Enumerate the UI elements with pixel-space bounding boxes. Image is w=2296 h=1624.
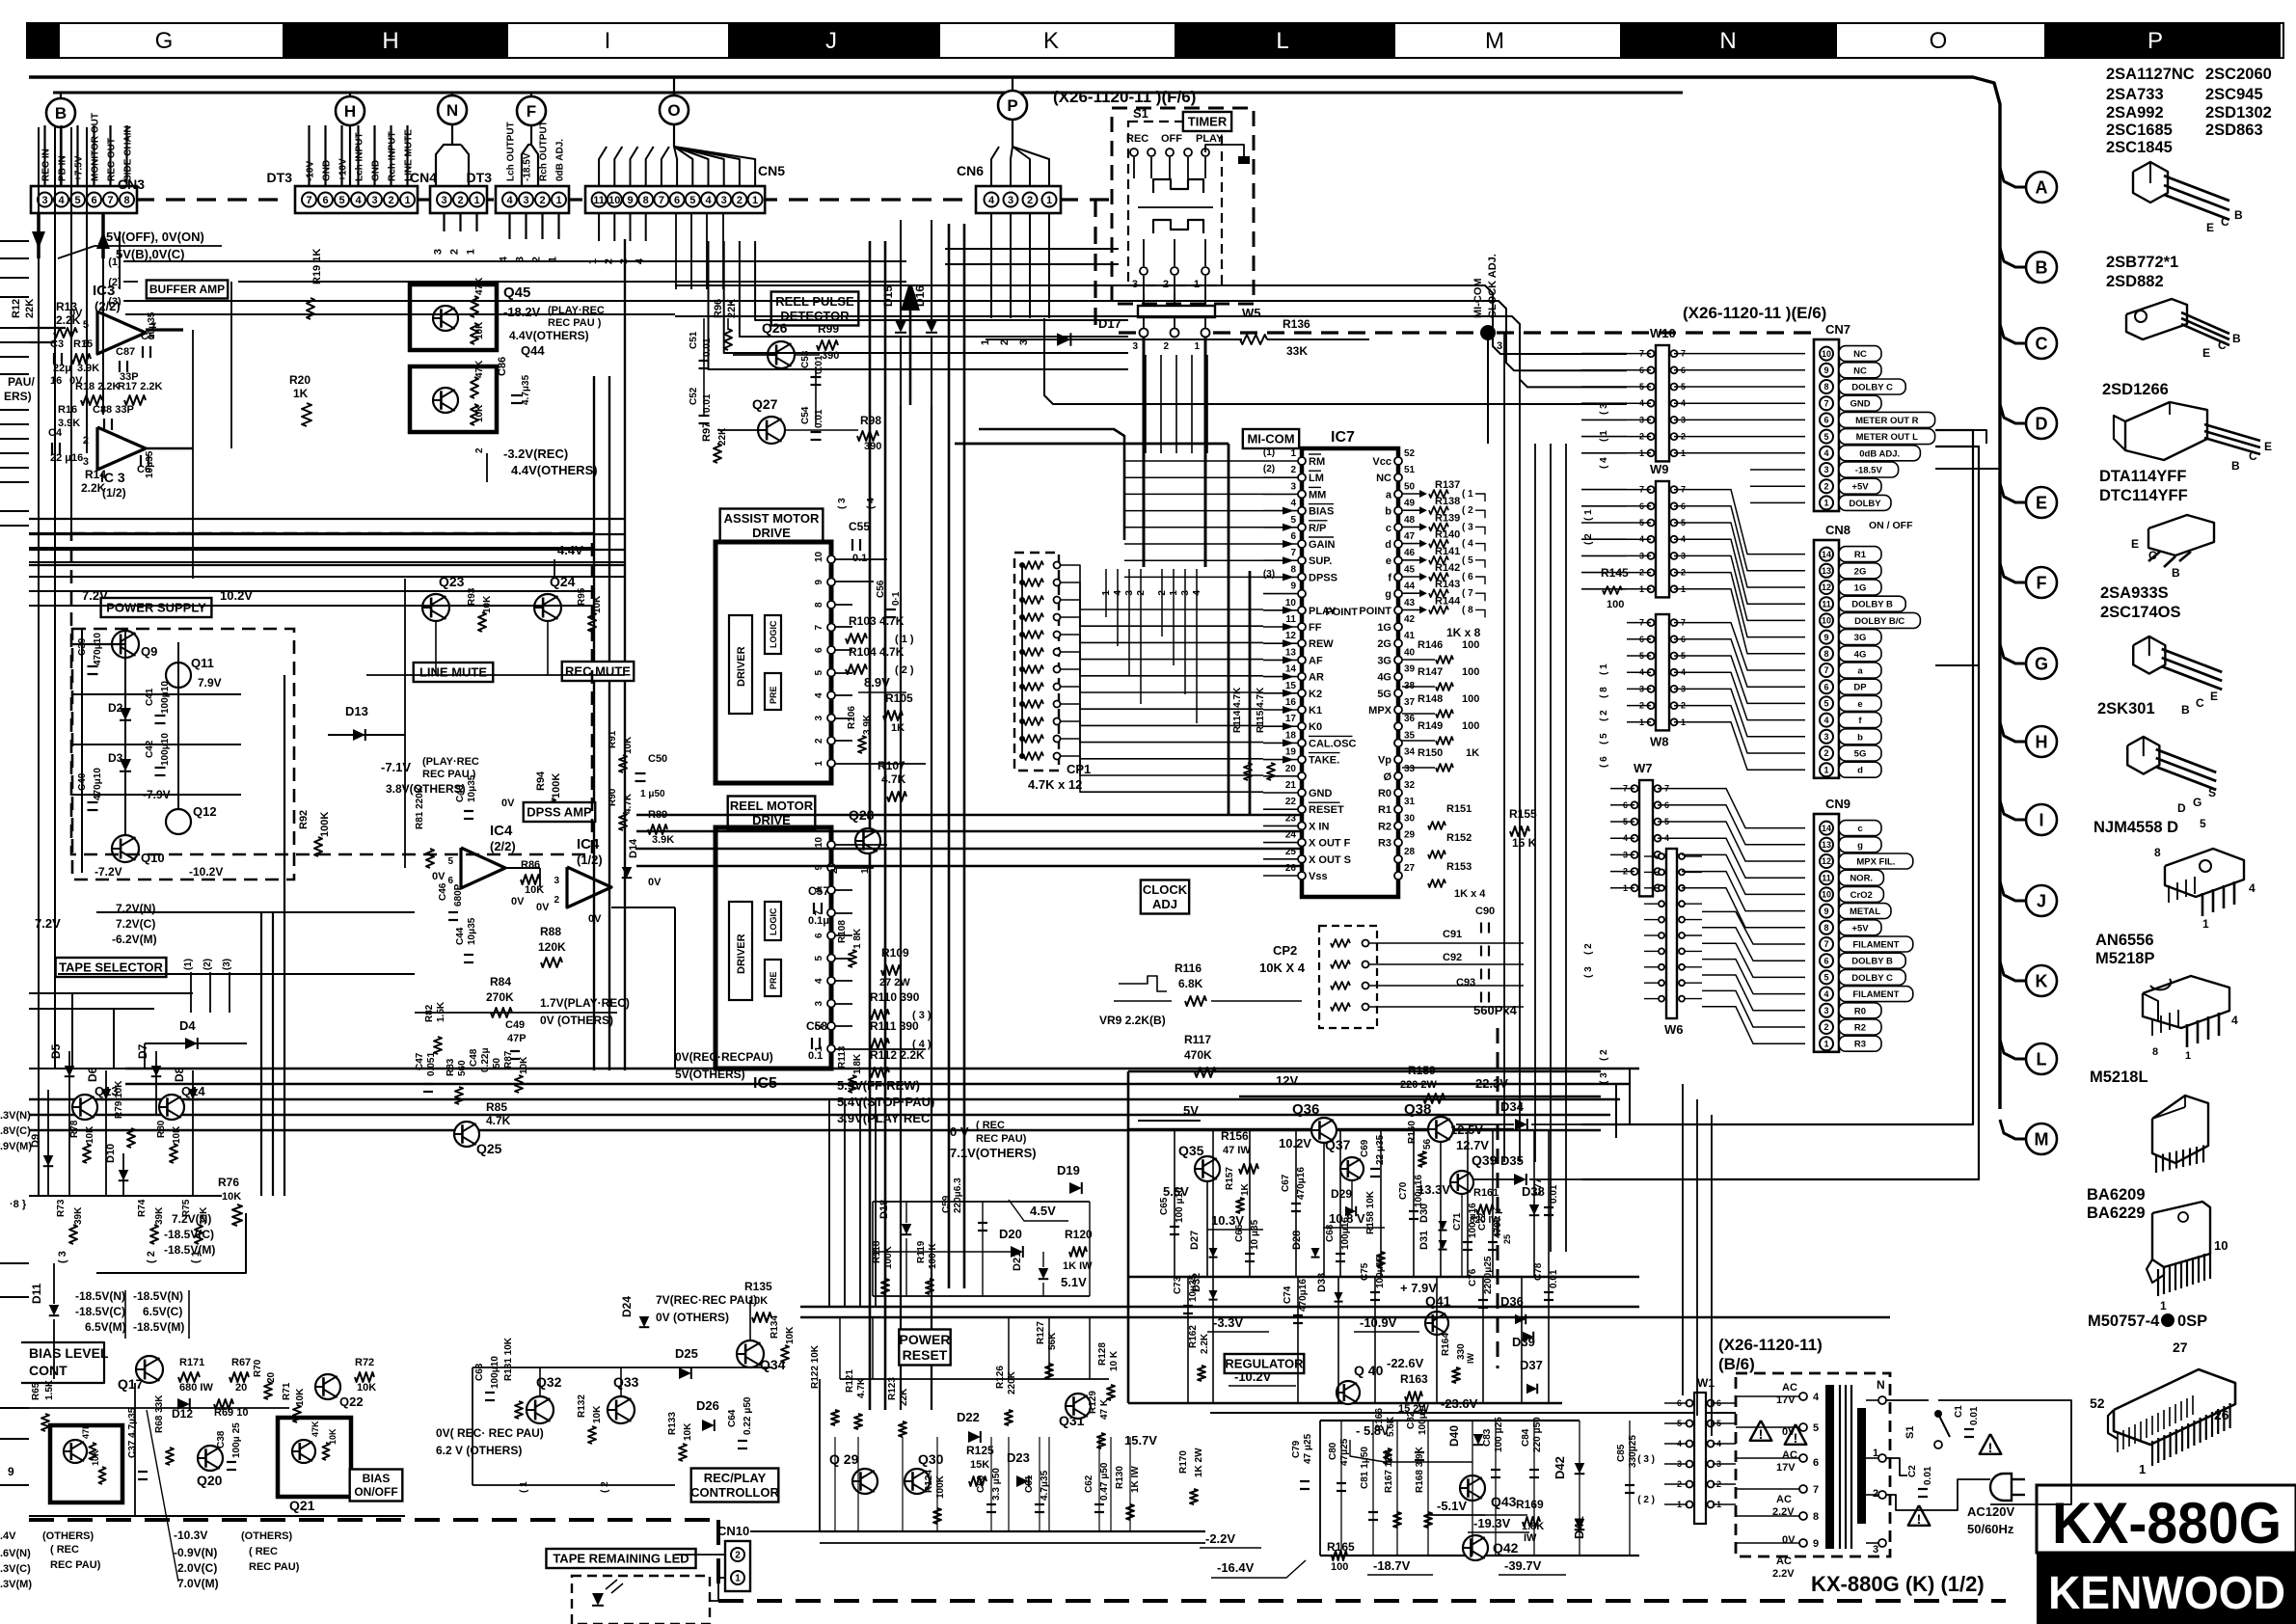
- node tap circle E: [2000, 483, 2026, 502]
- IC7 pin 8 DPSS: [1298, 573, 1306, 581]
- svg-text:IC7: IC7: [1331, 429, 1355, 446]
- svg-text:2SC945: 2SC945: [2205, 86, 2263, 103]
- IC7 pin 28 nc: [1394, 855, 1402, 863]
- wire cn8 to right border: [1935, 665, 1979, 675]
- svg-text:10K: 10K: [785, 1326, 796, 1344]
- wire left edge stubs lower: [0, 1262, 29, 1264]
- wire regulator verticals: [1174, 1129, 1175, 1277]
- svg-text:B: B: [2231, 459, 2240, 473]
- svg-text:49: 49: [1404, 499, 1416, 509]
- wire W1 pins: [1664, 1422, 1688, 1424]
- svg-text:6: 6: [91, 195, 96, 206]
- svg-text:5G: 5G: [1854, 749, 1867, 760]
- svg-text:14: 14: [1822, 550, 1831, 559]
- svg-text:3.8V(OTHERS): 3.8V(OTHERS): [386, 782, 466, 796]
- svg-text:1.5K: 1.5K: [44, 1379, 55, 1400]
- IC7 pin 50 a: [1394, 490, 1402, 498]
- svg-text:Q 40: Q 40: [1354, 1363, 1384, 1378]
- svg-text:15.7V: 15.7V: [1124, 1433, 1157, 1448]
- svg-text:AC: AC: [1776, 1556, 1792, 1567]
- svg-text:1: 1: [555, 195, 561, 206]
- svg-text:C59: C59: [941, 1195, 952, 1213]
- svg-text:RESET: RESET: [903, 1347, 948, 1363]
- wire W5 pin: [1204, 294, 1206, 306]
- resistor CP1-7: [1024, 665, 1043, 673]
- svg-text:2SA933S: 2SA933S: [2100, 584, 2169, 602]
- svg-text:R153: R153: [1446, 861, 1472, 873]
- logo box KX-880G: [2037, 1485, 2296, 1553]
- svg-text:11: 11: [1822, 599, 1831, 609]
- svg-text:R124: R124: [924, 1470, 934, 1493]
- svg-text:DP: DP: [1853, 683, 1867, 693]
- wire block C verticals: [1340, 1421, 1342, 1556]
- IC7 pin 29 R3: [1394, 839, 1402, 847]
- svg-text:O: O: [1930, 28, 1948, 54]
- svg-text:5.6K: 5.6K: [1386, 1416, 1396, 1437]
- resistor CP2-1: [1331, 939, 1350, 947]
- svg-text:-18.5V: -18.5V: [1855, 466, 1883, 476]
- svg-text:9: 9: [1290, 582, 1296, 592]
- svg-text:D31: D31: [1418, 1231, 1430, 1250]
- svg-text:( 2: ( 2: [1599, 710, 1609, 721]
- wire CN3 pin: [76, 125, 78, 186]
- connector CN5: [585, 186, 765, 213]
- svg-text:R126: R126: [995, 1366, 1006, 1389]
- svg-text:R137: R137: [1435, 479, 1460, 491]
- wire transformer to plug: [1886, 1458, 1907, 1475]
- svg-text:20: 20: [1285, 764, 1297, 774]
- svg-text:d: d: [1385, 539, 1391, 551]
- svg-text:7.2V(N): 7.2V(N): [172, 1212, 211, 1226]
- svg-text:2.2V: 2.2V: [1772, 1568, 1795, 1580]
- svg-text:52: 52: [1404, 448, 1416, 459]
- svg-text:2: 2: [554, 895, 559, 906]
- IC6 block: [716, 542, 831, 783]
- svg-text:REC PAU): REC PAU): [50, 1559, 101, 1571]
- svg-text:C: C: [2249, 449, 2257, 463]
- svg-text:1: 1: [473, 195, 479, 206]
- wire bundle center risers: [1145, 355, 1147, 453]
- svg-text:680 IW: 680 IW: [179, 1382, 213, 1394]
- svg-text:K2: K2: [1309, 689, 1322, 700]
- svg-text:7: 7: [1823, 398, 1828, 408]
- svg-text:( 8: ( 8: [1462, 605, 1473, 615]
- wire top bus B: [53, 92, 1683, 95]
- package drawing TO-126: [2126, 299, 2187, 339]
- svg-text:7: 7: [1813, 1484, 1819, 1496]
- svg-text:D15: D15: [881, 285, 895, 307]
- svg-text:1.5K: 1.5K: [436, 1001, 446, 1022]
- svg-text:REC OUT: REC OUT: [107, 138, 118, 181]
- IC6 DRIVER box: [729, 615, 752, 714]
- svg-text:50: 50: [1404, 481, 1416, 492]
- svg-text:R109: R109: [881, 946, 909, 960]
- svg-text:f: f: [1388, 572, 1391, 583]
- svg-text:R135: R135: [744, 1280, 772, 1293]
- svg-text:C68: C68: [1325, 1224, 1336, 1242]
- svg-text:2SD863: 2SD863: [2205, 122, 2263, 139]
- svg-text:1K: 1K: [891, 722, 905, 734]
- svg-text:Q26: Q26: [762, 320, 788, 336]
- svg-text:R136: R136: [1283, 317, 1310, 331]
- svg-text:CAL.OSC: CAL.OSC: [1309, 738, 1357, 749]
- wire bundle W9 left: [1581, 489, 1627, 491]
- svg-text:R144: R144: [1435, 595, 1461, 607]
- wire stub: [443, 213, 445, 231]
- svg-text:9: 9: [814, 580, 824, 585]
- svg-text:R128: R128: [1097, 1342, 1108, 1366]
- svg-text:R170: R170: [1178, 1450, 1189, 1474]
- wire W6 pin: [1644, 966, 1659, 968]
- svg-text:13: 13: [1285, 647, 1297, 658]
- label box REEL PULSE DETECTOR: [771, 292, 859, 326]
- svg-text:.3V(M): .3V(M): [0, 1579, 32, 1590]
- svg-text:R147: R147: [1418, 666, 1443, 678]
- svg-text:100μ16: 100μ16: [1340, 1217, 1351, 1250]
- svg-text:R65: R65: [31, 1382, 41, 1400]
- IC7 pin 42 1G: [1394, 623, 1402, 631]
- svg-text:0V( REC· REC PAU): 0V( REC· REC PAU): [436, 1426, 544, 1440]
- switch contacts bottom row: [1143, 239, 1145, 266]
- svg-text:LINE MUTE: LINE MUTE: [419, 665, 487, 680]
- svg-text:C62: C62: [1084, 1475, 1094, 1493]
- svg-text:S1: S1: [1904, 1426, 1916, 1439]
- svg-text:4.7μ35: 4.7μ35: [521, 374, 531, 405]
- svg-text:220 2W: 220 2W: [1400, 1079, 1438, 1091]
- svg-text:( 3: ( 3: [837, 498, 848, 509]
- svg-text:Q10: Q10: [141, 851, 165, 865]
- svg-text:LOGIC: LOGIC: [769, 907, 778, 935]
- svg-text:b: b: [1385, 506, 1391, 518]
- svg-text:+5V: +5V: [1851, 482, 1869, 493]
- svg-text:RM: RM: [1309, 456, 1325, 468]
- svg-text:1: 1: [1046, 195, 1052, 206]
- svg-text:37: 37: [1404, 697, 1416, 708]
- pin label 5G: [1839, 745, 1881, 761]
- svg-text:270K: 270K: [486, 990, 514, 1004]
- pin label DOLBY B: [1839, 953, 1905, 968]
- svg-text:51: 51: [1404, 465, 1416, 475]
- wire dashed CN9 to transformer: [1497, 1028, 1499, 1368]
- svg-text:NOR.: NOR.: [1850, 874, 1873, 884]
- svg-text:R72: R72: [355, 1357, 374, 1368]
- svg-text:7.1V(OTHERS): 7.1V(OTHERS): [950, 1146, 1037, 1160]
- svg-text:C48: C48: [469, 1048, 479, 1067]
- svg-text:CN9: CN9: [1825, 797, 1850, 811]
- callout line: [147, 1410, 178, 1582]
- node tap circle G: [2000, 644, 2026, 663]
- node stub circle P: [1012, 77, 1013, 91]
- wire CN4 pin: [390, 125, 392, 186]
- wire stub: [475, 213, 477, 231]
- svg-text:C67: C67: [1281, 1174, 1291, 1192]
- svg-text:(PLAY·REC: (PLAY·REC: [422, 756, 479, 768]
- svg-text:R171: R171: [179, 1357, 204, 1368]
- svg-text:R129: R129: [1088, 1391, 1098, 1414]
- svg-text:C: C: [2148, 549, 2157, 562]
- svg-text:FF: FF: [1309, 622, 1322, 634]
- svg-text:REW: REW: [1309, 638, 1334, 650]
- wire W pin: [1627, 622, 1651, 624]
- svg-text:0V: 0V: [588, 913, 602, 925]
- svg-text:C85: C85: [1616, 1444, 1627, 1462]
- svg-text:10K: 10K: [525, 884, 544, 896]
- dashed LED box: [572, 1576, 710, 1624]
- transformer pins left column: [1799, 1393, 1807, 1400]
- wire W pin: [1627, 688, 1651, 690]
- svg-text:1: 1: [2139, 1462, 2146, 1476]
- svg-text:5: 5: [814, 956, 824, 961]
- svg-text:22K: 22K: [899, 1388, 909, 1406]
- svg-text:(1): (1): [183, 959, 194, 970]
- svg-text:( REC: ( REC: [249, 1546, 278, 1557]
- svg-text:MONITOR OUT: MONITOR OUT: [91, 113, 101, 181]
- svg-text:R130: R130: [1115, 1466, 1125, 1489]
- transformer windings right: [1878, 1396, 1886, 1404]
- svg-text:IC5: IC5: [753, 1075, 777, 1092]
- svg-text:E: E: [2036, 493, 2047, 512]
- svg-text:2: 2: [539, 195, 545, 206]
- svg-text:6: 6: [1813, 1457, 1819, 1469]
- pin label c: [1839, 821, 1881, 836]
- svg-text:9: 9: [8, 1465, 14, 1478]
- package drawing SIP10: [2152, 1202, 2210, 1267]
- svg-text:-3.2V(REC): -3.2V(REC): [503, 447, 568, 461]
- svg-text:3: 3: [814, 1001, 824, 1007]
- wire left long verticals: [38, 598, 40, 1196]
- svg-text:3: 3: [1823, 732, 1828, 742]
- pin label g: [1839, 837, 1881, 853]
- svg-text:METER OUT R: METER OUT R: [1855, 416, 1919, 426]
- svg-text:C70: C70: [1398, 1181, 1409, 1200]
- wire circle P fan: [991, 147, 999, 186]
- wire block C mid rails: [1385, 1461, 1472, 1463]
- svg-text:R117: R117: [1184, 1033, 1211, 1046]
- transistor Q17: [136, 1356, 163, 1383]
- svg-text:-18.5V: -18.5V: [523, 152, 533, 181]
- svg-text:!: !: [1794, 1430, 1798, 1446]
- wire CN5 pin top: [674, 147, 740, 186]
- svg-text:C47: C47: [415, 1052, 425, 1070]
- svg-text:10K: 10K: [474, 321, 485, 339]
- switch contacts top row: [1130, 149, 1138, 156]
- svg-text:Q11: Q11: [191, 656, 214, 670]
- svg-text:10: 10: [814, 836, 824, 848]
- label box REC MUTE: [562, 662, 634, 681]
- svg-text:13: 13: [1822, 840, 1831, 850]
- wire cn6 sweep to W10 pin4: [1044, 318, 1627, 404]
- svg-text:C1: C1: [1954, 1405, 1964, 1418]
- svg-text:0.01: 0.01: [1549, 1269, 1559, 1288]
- pin label 4G: [1839, 646, 1881, 662]
- svg-text:R76: R76: [218, 1176, 239, 1189]
- svg-text:-16.4V: -16.4V: [1217, 1560, 1255, 1575]
- svg-text:2G: 2G: [1377, 638, 1391, 650]
- IC6 PRE box: [765, 673, 781, 710]
- resistor R138: [1402, 509, 1425, 511]
- svg-text:!: !: [1759, 1426, 1764, 1442]
- wire CN5 pin top: [599, 147, 607, 186]
- thick box Q21: [278, 1418, 351, 1497]
- svg-text:680P: 680P: [453, 883, 464, 907]
- svg-text:( 2: ( 2: [146, 1251, 157, 1263]
- pin label R1: [1839, 547, 1881, 562]
- svg-text:4: 4: [814, 978, 824, 984]
- svg-text:45: 45: [1404, 564, 1416, 575]
- pin label e: [1839, 695, 1881, 711]
- svg-text:D22: D22: [957, 1410, 980, 1424]
- wire W1 pins: [1664, 1463, 1688, 1465]
- svg-text:( 2 ): ( 2 ): [1637, 1495, 1655, 1505]
- svg-text:R162: R162: [1188, 1325, 1199, 1348]
- svg-text:I: I: [605, 28, 611, 54]
- svg-text:TAPE REMAINING LED: TAPE REMAINING LED: [553, 1552, 689, 1566]
- svg-text:C76: C76: [1468, 1268, 1478, 1286]
- svg-text:17: 17: [1285, 714, 1297, 724]
- wire left edge stubs upper: [0, 327, 29, 329]
- resistor CP1-6: [1024, 648, 1043, 656]
- svg-text:R67: R67: [231, 1357, 251, 1368]
- svg-text:( 3: ( 3: [57, 1251, 68, 1263]
- op-amp IC3 1/2: [97, 427, 146, 470]
- svg-text:J: J: [2037, 891, 2046, 910]
- svg-text:A: A: [2036, 177, 2048, 197]
- resistor R136: [1240, 335, 1267, 344]
- svg-text:R80: R80: [156, 1120, 167, 1138]
- jumper W6: [1666, 849, 1677, 1018]
- svg-text:DRIVER: DRIVER: [736, 646, 747, 687]
- wire heavy elbow from left: [979, 429, 1124, 540]
- svg-text:AN6556: AN6556: [2095, 932, 2154, 949]
- svg-text:DTC114YFF: DTC114YFF: [2099, 487, 2188, 504]
- svg-text:( 2: ( 2: [1583, 943, 1594, 955]
- svg-text:KENWOOD: KENWOOD: [2048, 1568, 2285, 1619]
- svg-text:3: 3: [371, 195, 377, 206]
- svg-text:( 4: ( 4: [1599, 457, 1609, 469]
- svg-text:8: 8: [123, 195, 129, 206]
- svg-text:IW: IW: [1466, 1352, 1475, 1364]
- wire W pin: [1610, 788, 1634, 790]
- svg-text:1: 1: [735, 1574, 741, 1584]
- node stub circle F: [530, 93, 532, 96]
- svg-text:10K: 10K: [482, 595, 493, 613]
- wire dashed boundary vertical jog: [1094, 200, 1096, 333]
- svg-text:(X26-1120-11): (X26-1120-11): [1718, 1336, 1823, 1354]
- wire W pin: [1627, 638, 1651, 640]
- svg-text:ERS): ERS): [4, 390, 32, 403]
- resistor CP1-12: [1024, 752, 1043, 760]
- svg-text:5: 5: [447, 856, 453, 867]
- svg-text:( 5: ( 5: [1462, 555, 1473, 566]
- svg-text:AR: AR: [1309, 672, 1324, 684]
- wire CN6 below: [1029, 213, 1031, 318]
- svg-text:BA6229: BA6229: [2087, 1204, 2146, 1222]
- svg-text:R1: R1: [1854, 550, 1867, 560]
- svg-text:VR9 2.2K(B): VR9 2.2K(B): [1099, 1014, 1166, 1027]
- svg-text:GND: GND: [1850, 399, 1870, 410]
- svg-text:6: 6: [814, 933, 824, 938]
- svg-text:10K: 10K: [748, 1295, 768, 1307]
- transistor Q11: [166, 663, 191, 688]
- svg-text:C80: C80: [1328, 1442, 1338, 1460]
- svg-text:LINE MUTE: LINE MUTE: [404, 129, 415, 181]
- svg-text:R140: R140: [1435, 529, 1460, 541]
- wire W6 pin: [1644, 934, 1659, 936]
- wire CN3 pin: [125, 125, 127, 186]
- svg-text:27: 27: [2173, 1340, 2188, 1355]
- svg-text:14: 14: [1822, 824, 1831, 833]
- svg-text:9: 9: [1823, 907, 1828, 916]
- svg-text:( 2: ( 2: [1462, 505, 1473, 516]
- wire W pin: [1610, 887, 1634, 889]
- svg-text:7: 7: [1823, 939, 1828, 949]
- svg-text:0V: 0V: [511, 896, 525, 907]
- svg-text:-0.9V(N): -0.9V(N): [174, 1546, 217, 1559]
- IC7 pin 32 R0: [1394, 789, 1402, 797]
- svg-text:5: 5: [1813, 1422, 1819, 1434]
- wire ic5 right wires: [835, 844, 887, 846]
- transformer core: [1825, 1385, 1834, 1549]
- svg-text:2: 2: [1290, 465, 1296, 475]
- svg-text:R111 390: R111 390: [870, 1019, 919, 1033]
- wire q26 q27 links: [733, 354, 768, 356]
- svg-text:10 K: 10 K: [1109, 1350, 1120, 1371]
- IC7 block: [1302, 448, 1398, 897]
- package drawing DIP8 2: [2143, 976, 2229, 1028]
- svg-text:3: 3: [1290, 481, 1296, 492]
- svg-text:10: 10: [1285, 598, 1297, 609]
- svg-text:CN7: CN7: [1825, 322, 1850, 337]
- svg-text:0V: 0V: [501, 798, 515, 809]
- transistor Q13: [72, 1095, 97, 1120]
- svg-text:AC: AC: [1782, 1382, 1797, 1394]
- svg-text:R3: R3: [1378, 838, 1391, 850]
- node MI-COM CLOCK ADJ: [1480, 325, 1496, 340]
- svg-text:PB IN: PB IN: [58, 155, 68, 181]
- svg-text:P: P: [1007, 96, 1017, 115]
- svg-text:ON/OFF: ON/OFF: [354, 1485, 397, 1499]
- svg-text:3: 3: [1823, 465, 1828, 474]
- warning triangle 2: [1785, 1424, 1807, 1445]
- svg-text:ASSIST MOTOR: ASSIST MOTOR: [724, 511, 820, 526]
- wire W pin: [1627, 436, 1651, 438]
- svg-text:10.2V: 10.2V: [1279, 1136, 1311, 1150]
- wire bus right hooks: [1601, 1069, 1630, 1123]
- svg-text:B: B: [2181, 703, 2190, 717]
- resistor R143: [1402, 592, 1425, 594]
- transistor Q10: [112, 835, 139, 862]
- transistor Q12: [166, 809, 191, 834]
- svg-text:R/P: R/P: [1309, 523, 1326, 534]
- svg-text:R125: R125: [966, 1444, 994, 1457]
- node tap circle C: [2000, 324, 2026, 343]
- svg-text:-19.3V: -19.3V: [1473, 1516, 1511, 1530]
- svg-text:g: g: [1857, 840, 1863, 851]
- svg-text:R168 3.9K: R168 3.9K: [1415, 1446, 1425, 1493]
- svg-text:-10V: -10V: [306, 161, 316, 181]
- svg-text:5V(B),0V(C): 5V(B),0V(C): [116, 247, 185, 261]
- svg-text:DT3: DT3: [267, 170, 293, 185]
- svg-text:DRIVER: DRIVER: [736, 934, 747, 974]
- svg-text:5: 5: [338, 195, 344, 206]
- svg-text:5: 5: [74, 195, 80, 206]
- svg-text:R3: R3: [1854, 1040, 1866, 1050]
- svg-text:13: 13: [1822, 566, 1831, 576]
- svg-text:11: 11: [593, 195, 605, 206]
- resistor CP1-5: [1024, 631, 1043, 638]
- node tap circle L: [2000, 1040, 2026, 1059]
- IC7 pin 26 Vss: [1298, 872, 1306, 880]
